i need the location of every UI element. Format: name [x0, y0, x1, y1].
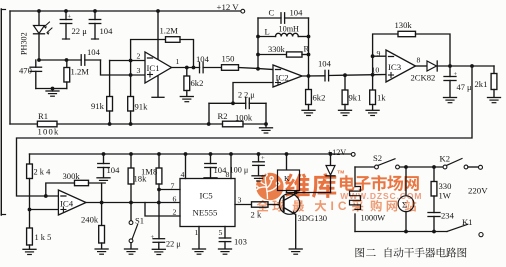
feedback resistor R17 300k [46, 180, 102, 202]
wire IC3 pin9 [371, 54, 386, 58]
label 1M8 R20 [141, 167, 157, 177]
svg-text:3: 3 [137, 66, 141, 75]
svg-text:330: 330 [439, 181, 452, 191]
wire jog into IC1 pin3 [101, 60, 146, 77]
svg-text:R: R [304, 45, 310, 54]
transistor collector wire [295, 193, 297, 194]
svg-text:2 k 4: 2 k 4 [34, 168, 52, 177]
wire detector output node [437, 64, 494, 68]
label 91k R5 [135, 102, 149, 112]
svg-text:130k: 130k [395, 20, 413, 30]
capacitor C6 104 filter [258, 13, 309, 24]
label K1 [462, 217, 473, 227]
label 300k R17 [63, 171, 81, 181]
svg-text:10: 10 [372, 66, 380, 75]
label 100u C13 [230, 166, 249, 175]
svg-text:R2: R2 [218, 111, 228, 121]
label 18k R19 [134, 174, 148, 184]
svg-text:9: 9 [377, 49, 381, 58]
label IC5 [200, 191, 214, 201]
label 470 [19, 66, 32, 76]
svg-text:470: 470 [19, 66, 32, 76]
op-amp IC4 [58, 190, 86, 215]
ground under 470/1.2M [46, 89, 59, 97]
svg-text:6k2: 6k2 [313, 93, 326, 103]
svg-text:IC5: IC5 [200, 191, 214, 201]
resistor R10 6k2 [302, 76, 315, 116]
wire IC1 pin2 [110, 59, 145, 63]
label 104 C5 [196, 54, 210, 64]
label 100k R1 [38, 127, 60, 137]
feedback resistor R6 1.2M [131, 37, 194, 68]
svg-text:10mH: 10mH [279, 25, 300, 34]
label 9k1 R11 [349, 93, 362, 103]
label IC4 [60, 199, 74, 209]
label PH302 [20, 32, 29, 55]
ground under 6k2 [180, 97, 193, 102]
label 104 C8 [318, 59, 332, 69]
svg-text:+: + [261, 155, 265, 162]
timer IC5 NE555 box [180, 179, 235, 227]
label K2 [440, 154, 451, 164]
label 6k2 R7 [191, 78, 204, 88]
resistor R3 1.2M [51, 60, 70, 90]
label 2CK82 [411, 73, 436, 83]
label 150 R8 [222, 54, 235, 64]
pin label 1 IC5 [195, 228, 199, 237]
pin label 2 [137, 52, 141, 61]
resistor R7 6k2 [184, 68, 190, 97]
photodiode PH1 PH302 vertical wire [38, 11, 40, 60]
svg-text:+12 V: +12 V [217, 2, 240, 12]
label 22u [72, 26, 88, 36]
svg-text:104: 104 [100, 26, 114, 36]
label 47u C9 [457, 83, 472, 92]
capacitor C7 22u [209, 98, 266, 109]
label 104 C12 [214, 165, 228, 175]
pin label 8 IC5 [226, 170, 230, 179]
capacitor C8 104 coupling [325, 70, 386, 81]
switch S1 [125, 203, 138, 255]
svg-text:300k: 300k [63, 171, 81, 181]
motor M fan [398, 167, 414, 232]
label IC3 [388, 62, 402, 72]
svg-text:1W: 1W [439, 191, 452, 201]
capacitor C13 100u electrolytic [252, 154, 265, 181]
diode D2 flyback [326, 154, 335, 193]
svg-text:I: I [331, 199, 334, 213]
label 234 C15 [441, 211, 455, 221]
svg-text:2k1: 2k1 [475, 79, 488, 89]
svg-text:5: 5 [219, 228, 223, 237]
label 22u C7 [238, 91, 255, 100]
IC5 pin7 wire [159, 189, 180, 191]
svg-text:K2: K2 [440, 154, 451, 164]
op-amp IC2 [273, 65, 302, 87]
svg-text:103: 103 [234, 237, 247, 247]
label 1.2M R6 [160, 26, 179, 36]
transistor emitter ground [289, 215, 302, 255]
label IC2 [276, 73, 289, 83]
svg-text:6: 6 [173, 195, 177, 204]
light arrows into PH302 [44, 22, 52, 35]
capacitor C10 104 [97, 154, 110, 183]
label 104 C10 [107, 165, 121, 175]
svg-text:104: 104 [107, 165, 121, 175]
svg-text:100k: 100k [38, 127, 60, 137]
pin label 4 [181, 170, 185, 179]
svg-text:4: 4 [181, 170, 185, 179]
watermark dzsc logo and text [255, 169, 423, 213]
wire IC3 output [416, 65, 428, 67]
svg-text:8: 8 [226, 170, 230, 179]
label NE555 [193, 208, 219, 218]
label 3DG130 [298, 213, 328, 223]
label R1 [38, 111, 48, 121]
svg-text:104: 104 [87, 47, 101, 57]
svg-text:150: 150 [222, 54, 235, 64]
wire IC1 output [172, 66, 200, 70]
svg-text:2: 2 [137, 52, 141, 61]
label 220V [468, 186, 488, 196]
diode D1 2CK82 [427, 61, 437, 71]
svg-text:104: 104 [196, 54, 210, 64]
terminal +12V lower [351, 153, 355, 157]
label 240k R18 [81, 215, 99, 225]
svg-text:234: 234 [441, 211, 455, 221]
svg-text:PH302: PH302 [20, 32, 29, 55]
capacitor C4 470 [30, 60, 52, 89]
label R [304, 45, 310, 54]
svg-text:R1: R1 [38, 111, 48, 121]
resistor R2 100k [207, 103, 268, 126]
label S2 [373, 153, 382, 163]
resistor R19 18k [128, 154, 134, 203]
svg-text:104: 104 [290, 8, 304, 18]
svg-text:100 μ: 100 μ [230, 166, 249, 175]
svg-text:220V: 220V [468, 186, 488, 196]
pin label 1 [176, 57, 180, 66]
label C [269, 8, 275, 18]
wire IC2 noninverting input [233, 83, 273, 104]
caption figure title [355, 248, 466, 258]
wire IC4 output rail [86, 201, 180, 205]
svg-text:L: L [265, 27, 270, 37]
label 104 C3 [87, 47, 101, 57]
wire feed to lower section [17, 66, 473, 198]
svg-text:330k: 330k [268, 45, 286, 54]
svg-text:+: + [68, 14, 72, 21]
svg-text:S2: S2 [373, 153, 382, 163]
svg-text:1k: 1k [377, 93, 386, 103]
pin label 10 [372, 66, 380, 75]
wire relay to collector [287, 191, 331, 195]
svg-text:1: 1 [176, 57, 180, 66]
label 1W [439, 191, 452, 201]
svg-text:NE555: NE555 [193, 208, 219, 218]
svg-text:IC2: IC2 [276, 73, 289, 83]
resistor R20 1M8 [156, 154, 162, 239]
svg-text:2CK82: 2CK82 [411, 73, 436, 83]
label 330k R9 [268, 45, 286, 54]
svg-text:2 2 μ: 2 2 μ [238, 91, 255, 100]
label 1k R12 [377, 93, 386, 103]
pin label 7 [171, 182, 175, 191]
resistor R11 9k1 [339, 75, 352, 115]
LCR left vertical wire [256, 18, 260, 71]
capacitor C3 104 coupling [81, 55, 100, 66]
label 1.2M R3 [71, 67, 90, 77]
resistor R4 91k [107, 61, 113, 125]
terminal +12V top [241, 9, 245, 13]
resistor R1 100k bias [10, 121, 223, 127]
pin label 8 [417, 56, 421, 65]
svg-text:1 k 5: 1 k 5 [35, 233, 52, 242]
label 104 top [100, 26, 114, 36]
svg-text:WWW.DZSC.COM: WWW.DZSC.COM [340, 191, 422, 201]
svg-text:91k: 91k [135, 102, 149, 112]
svg-text:2: 2 [173, 208, 177, 217]
svg-text:9k1: 9k1 [349, 93, 362, 103]
+12V top supply rail [10, 9, 241, 13]
resistor R22 330 1W [431, 167, 437, 213]
svg-text:1000W: 1000W [361, 214, 386, 223]
capacitor C11 22u electrolytic [151, 234, 166, 255]
op-amp IC1 power wire [152, 11, 164, 97]
label IC1 [147, 63, 160, 73]
label +12V lower [328, 148, 347, 157]
switch K2 relay contact [443, 159, 482, 170]
svg-text:3DG130: 3DG130 [298, 213, 328, 223]
capacitor C2 104 [89, 11, 101, 39]
resistor R16 1k5 [23, 228, 36, 255]
svg-text:104: 104 [318, 59, 332, 69]
heater element 1000W [350, 167, 361, 232]
wire IC4 noninverting input [30, 209, 59, 211]
label 2k R21 [251, 210, 262, 220]
resistor R18 240k [95, 203, 108, 255]
capacitor C12 104 [204, 154, 217, 183]
label 2k1 R14 [475, 79, 488, 89]
svg-text:TM: TM [337, 169, 344, 175]
capacitor C9 47u electrolytic [444, 66, 458, 103]
IC5 pin2 wire [145, 203, 180, 217]
ground under R2 [260, 124, 273, 133]
svg-text:1.2M: 1.2M [71, 67, 90, 77]
resistor R12 1k [366, 56, 379, 115]
svg-text:240k: 240k [81, 215, 99, 225]
svg-text:+: + [454, 71, 458, 78]
+12V lower rail [30, 152, 352, 156]
label 91k R4 [91, 101, 105, 111]
svg-text:91k: 91k [91, 101, 105, 111]
label 2k4 R15 [34, 168, 52, 177]
IC5 pin5 wire capacitor C14 103 [219, 227, 232, 255]
resistor R15 2k4 [27, 154, 33, 228]
IC5 pin4 wire [185, 154, 187, 179]
wire IC2 output [302, 75, 325, 77]
IC5 pin1 wire [193, 227, 206, 255]
svg-text:22 μ: 22 μ [72, 26, 88, 36]
IC5 pin8 wire [230, 154, 232, 179]
svg-text:3: 3 [238, 196, 242, 205]
pin label 6 [173, 195, 177, 204]
svg-text:S1: S1 [135, 216, 144, 226]
capacitor C15 234 [428, 213, 440, 232]
label 100k R2 [235, 113, 253, 123]
svg-text:6k2: 6k2 [191, 78, 204, 88]
inductor L1 10mH [258, 33, 309, 36]
photodiode PH1 PH302 [34, 26, 45, 34]
resistor R21 2k base [252, 202, 280, 207]
label S1 [135, 216, 144, 226]
label 10mH [279, 25, 300, 34]
svg-text:+: + [151, 234, 155, 241]
svg-text:1M8: 1M8 [141, 167, 157, 177]
svg-text:C: C [269, 8, 275, 18]
label 22u C11 [166, 240, 181, 249]
resistor R8 150 [222, 65, 274, 71]
op-amp IC1 [145, 52, 172, 83]
svg-text:K1: K1 [462, 217, 473, 227]
pin label 2 IC5 [173, 208, 177, 217]
label 104 C6 [290, 8, 304, 18]
svg-text:C: C [338, 199, 347, 213]
capacitor C5 104 coupling [200, 62, 222, 73]
page left border bracket [1, 9, 5, 215]
feedback resistor R13 130k [373, 31, 450, 66]
svg-text:100k: 100k [235, 113, 253, 123]
+12V label top [217, 2, 240, 12]
label 103 C14 [234, 237, 247, 247]
svg-text:1.2M: 1.2M [160, 26, 179, 36]
switch S2 [375, 159, 400, 169]
wire mains top [355, 165, 443, 169]
wire left boundary [9, 11, 11, 124]
capacitor C1 22u electrolytic [60, 11, 72, 39]
relay coil K1A [278, 154, 300, 193]
op-amp IC3 [386, 50, 416, 82]
svg-text:IC3: IC3 [388, 62, 402, 72]
label 130k R13 [395, 20, 413, 30]
label 6k2 R10 [313, 93, 326, 103]
svg-text:22 μ: 22 μ [166, 240, 181, 249]
pin label 3 IC5 [238, 196, 242, 205]
node A wire photodiode to C3 [37, 58, 81, 62]
pin label 9 [377, 49, 381, 58]
svg-text:1: 1 [195, 228, 199, 237]
label 330 R22 [439, 181, 452, 191]
label R2 [218, 111, 228, 121]
svg-text:IC1: IC1 [147, 63, 160, 73]
svg-text:IC4: IC4 [60, 199, 74, 209]
label 1k5 R16 [35, 233, 52, 242]
label 1000W [361, 214, 386, 223]
resistor R14 2k1 [488, 66, 501, 103]
transistor Q1 3DG130 [279, 194, 300, 215]
svg-text:8: 8 [417, 56, 421, 65]
pin label 5 [219, 228, 223, 237]
resistor R5 91k [128, 61, 134, 125]
wire mains bottom [355, 230, 447, 234]
switch K1 relay contact [447, 224, 483, 236]
svg-text:7: 7 [171, 182, 175, 191]
svg-text:47 μ: 47 μ [457, 83, 472, 92]
label L [265, 27, 270, 37]
LCR right vertical wire [307, 18, 311, 78]
IC5 pin3 wire [235, 204, 252, 206]
pin label 3 [137, 66, 141, 75]
resistor R9 330k filter [258, 52, 309, 57]
